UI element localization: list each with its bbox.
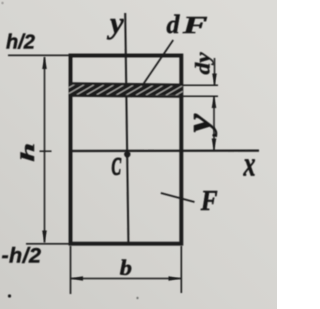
svg-text:C: C — [112, 154, 122, 181]
svg-text:x: x — [243, 145, 256, 183]
svg-text:d: d — [167, 10, 181, 39]
svg-text:dy: dy — [191, 52, 215, 74]
svg-text:b: b — [120, 256, 132, 281]
svg-text:F: F — [182, 12, 208, 39]
svg-text:F: F — [200, 185, 218, 217]
svg-text:h/2: h/2 — [6, 32, 35, 54]
svg-text:-h/2: -h/2 — [2, 244, 42, 268]
svg-text:h: h — [17, 143, 38, 162]
